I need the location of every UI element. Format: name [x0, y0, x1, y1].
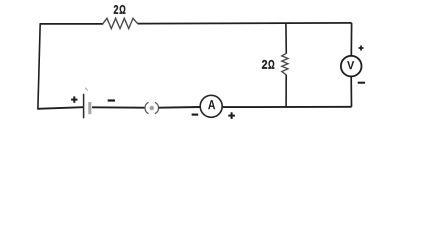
- wire right side top segment: [350, 23, 352, 56]
- wire bottom: ammeter to right corner: [222, 106, 351, 108]
- label voltmeter +: [359, 46, 364, 51]
- wire top right segment: [138, 22, 352, 25]
- resistor R2 2Ω (vertical zigzag): [282, 53, 288, 74]
- battery B1: [84, 94, 90, 119]
- wire R2 top lead from top wire: [285, 23, 287, 53]
- voltmeter V1: [341, 56, 362, 77]
- label ammeter +: [228, 112, 235, 119]
- label R1 value 2Ω: [114, 5, 126, 14]
- wire bottom: lamp to ammeter: [159, 106, 201, 109]
- wire left side: [38, 23, 40, 108]
- label battery +: [71, 96, 77, 102]
- wire bottom: left corner to battery: [37, 107, 83, 109]
- wire R2 bottom lead to bottom wire: [285, 75, 287, 107]
- lamp (small circle with dot): [145, 102, 159, 113]
- label ammeter −: [192, 114, 199, 116]
- wire bottom: battery to lamp: [92, 106, 145, 108]
- label battery −: [108, 99, 115, 101]
- stray mark above battery: [85, 88, 88, 91]
- label voltmeter −: [358, 82, 365, 84]
- wire top left segment: [40, 23, 103, 25]
- ammeter A1: [200, 95, 222, 117]
- wire right side bottom segment: [350, 76, 352, 106]
- label R2 value 2Ω: [262, 60, 274, 69]
- resistor R1 2Ω (top, zigzag): [103, 18, 138, 28]
